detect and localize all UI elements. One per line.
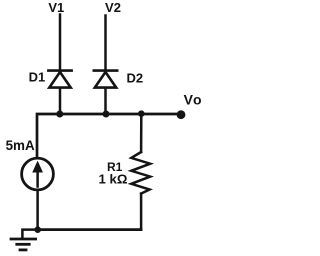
- wire bottom return: [38, 228, 142, 231]
- wire R1 bottom stub: [140, 194, 143, 230]
- svg-text:V2: V2: [105, 0, 121, 15]
- junction dot R1-rail: [138, 110, 145, 117]
- current source arrow: [33, 162, 42, 187]
- wire R1 top stub: [140, 114, 143, 152]
- current source I1 circle: [22, 158, 54, 190]
- junction dot D1-rail: [56, 111, 63, 118]
- diode D2: [94, 71, 117, 88]
- wire ground stub: [22, 230, 37, 238]
- wire current source to ground node: [36, 190, 39, 230]
- svg-text:D1: D1: [29, 69, 46, 84]
- wire D1 cathode to output rail: [59, 89, 62, 115]
- terminal dot Vo: [177, 110, 186, 119]
- junction dot ground node: [34, 226, 41, 233]
- resistor R1: [131, 152, 150, 194]
- svg-text:1 kΩ: 1 kΩ: [98, 172, 127, 187]
- svg-text:Vo: Vo: [184, 91, 203, 107]
- wire D2 cathode to output rail: [104, 89, 107, 115]
- wire V1 input: [59, 15, 62, 71]
- diode D1: [48, 71, 71, 88]
- svg-text:D2: D2: [127, 70, 144, 85]
- svg-text:V1: V1: [48, 0, 64, 15]
- ground symbol: [11, 239, 36, 250]
- junction dot D2-rail: [103, 111, 110, 118]
- wire output rail: [37, 114, 178, 156]
- wire V2 input: [104, 16, 107, 71]
- svg-text:5mA: 5mA: [6, 138, 35, 153]
